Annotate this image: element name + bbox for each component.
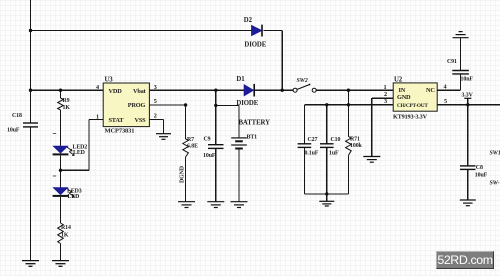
op-amp U3 <box>103 83 149 127</box>
wire bottom rail ground stem <box>326 194 328 201</box>
power port 3.3V <box>464 97 471 99</box>
wire R9 branch top <box>60 90 62 98</box>
wire C9 branch <box>215 90 217 144</box>
ground (U2 GND) <box>363 157 380 163</box>
capacitor C91 <box>452 71 469 74</box>
wire C8 to ground <box>467 170 469 200</box>
wire C10 top <box>326 105 328 144</box>
capacitor C10 <box>320 144 334 148</box>
ground (C27 C10 R71) <box>319 201 334 206</box>
wire C91 top to power <box>460 38 462 70</box>
wire VSS down <box>163 119 165 133</box>
svg-text:SW1: SW1 <box>490 151 500 157</box>
pin mark LED3 <box>53 175 56 177</box>
watermark 52RD.com <box>436 251 494 269</box>
svg-text:SW2: SW2 <box>297 78 308 84</box>
svg-text:3: 3 <box>384 98 387 105</box>
svg-text:3: 3 <box>154 84 157 91</box>
resistor R71 <box>346 136 352 155</box>
ground (C8) <box>460 200 476 206</box>
wire R14 to ground <box>60 244 62 261</box>
ground (BT1) <box>231 202 248 208</box>
wire battery to ground <box>238 149 240 202</box>
svg-text:DIODE: DIODE <box>244 42 266 49</box>
wire battery link horizontal <box>216 104 239 106</box>
svg-text:R71: R71 <box>350 137 360 143</box>
wire C9 to ground <box>215 148 217 201</box>
svg-text:LED: LED <box>68 194 80 200</box>
svg-text:Vbat: Vbat <box>133 88 147 95</box>
svg-text:DGND: DGND <box>180 166 186 183</box>
switch SW2 <box>293 84 316 93</box>
svg-text:C18: C18 <box>12 113 22 119</box>
svg-text:C8: C8 <box>476 165 483 171</box>
ground (U3 VSS) <box>156 134 171 140</box>
svg-text:PROG: PROG <box>128 102 146 109</box>
svg-text:0.1uF: 0.1uF <box>305 151 319 157</box>
svg-text:4: 4 <box>444 84 447 91</box>
resistor R7 <box>183 139 189 157</box>
svg-text:R14: R14 <box>61 225 71 231</box>
svg-text:1: 1 <box>96 113 99 120</box>
svg-text:6.8E: 6.8E <box>187 144 198 150</box>
svg-text:D1: D1 <box>236 76 245 83</box>
power port inverted ground (top right) <box>453 32 469 38</box>
wire top horizontal <box>31 30 252 32</box>
svg-text:BATTERY: BATTERY <box>239 119 271 126</box>
wire C91 bottom <box>460 74 462 90</box>
wire LED3 to R14 <box>60 197 62 223</box>
svg-text:CH/CPT-OUT: CH/CPT-OUT <box>397 103 428 109</box>
svg-text:U3: U3 <box>105 77 114 84</box>
svg-text:5: 5 <box>154 98 157 105</box>
svg-text:SW-: SW- <box>490 180 500 186</box>
capacitor C9 <box>208 145 224 149</box>
svg-text:3.3V: 3.3V <box>462 93 474 99</box>
svg-text:10uF: 10uF <box>475 173 488 179</box>
ground (C9) <box>207 202 224 208</box>
LED LED2 <box>53 146 75 155</box>
svg-text:VSS: VSS <box>135 117 147 124</box>
wire R9 to LED2 <box>60 110 62 146</box>
svg-text:10nF: 10nF <box>461 77 474 83</box>
wire SW2 to U2 <box>316 89 393 91</box>
svg-text:NC: NC <box>426 87 435 94</box>
svg-text:2: 2 <box>384 91 387 98</box>
wire R7 to ground <box>185 157 187 201</box>
capacitor C8 <box>460 166 476 170</box>
wire left vertical top <box>30 0 32 123</box>
svg-text:C9: C9 <box>204 137 211 143</box>
wire D2 branch vertical <box>281 31 283 91</box>
wire STAT to LED node <box>61 169 90 171</box>
svg-text:BT1: BT1 <box>247 134 258 140</box>
svg-text:1: 1 <box>384 84 387 91</box>
wire PROG to R7 <box>185 105 187 139</box>
svg-text:GND: GND <box>397 94 411 101</box>
svg-text:1uF: 1uF <box>329 151 339 157</box>
svg-text:1K: 1K <box>63 105 71 111</box>
svg-text:U2: U2 <box>394 76 403 83</box>
wire node to LED3 <box>60 170 62 188</box>
wire Vbat rail <box>149 89 244 91</box>
svg-text:2: 2 <box>154 112 157 119</box>
ground (R7) <box>178 202 195 208</box>
wire U2 GND down <box>371 98 373 156</box>
wire STAT vertical <box>88 119 90 170</box>
capacitor C27 <box>298 144 312 148</box>
wire left vertical below C18 <box>30 127 32 260</box>
ground (left column) <box>22 261 39 267</box>
svg-text:LED: LED <box>73 150 85 156</box>
wire R71 top <box>347 105 349 137</box>
battery BT1 <box>231 138 247 149</box>
svg-text:IN: IN <box>399 87 406 94</box>
wire STAT stub <box>89 118 103 120</box>
wire C10 bottom <box>326 147 328 194</box>
wire VSS stub <box>149 118 163 120</box>
svg-text:R7: R7 <box>187 137 194 143</box>
wire battery top <box>238 105 240 137</box>
diode D1 <box>244 84 254 97</box>
wire C8 top <box>467 105 469 166</box>
LED LED3 <box>53 188 75 197</box>
svg-text:C10: C10 <box>331 137 341 143</box>
ground (R14) <box>52 261 69 267</box>
wire D1 to SW2 <box>255 89 293 91</box>
svg-text:STAT: STAT <box>109 117 125 124</box>
svg-text:C91: C91 <box>447 59 457 65</box>
svg-text:D2: D2 <box>244 17 253 24</box>
svg-text:10uF: 10uF <box>203 153 216 159</box>
wire top horizontal after D2 <box>264 30 283 32</box>
wire LED2 to node <box>60 155 62 170</box>
svg-text:MCP73831: MCP73831 <box>105 128 135 135</box>
diode D2 <box>252 25 262 37</box>
svg-text:100k: 100k <box>350 143 363 149</box>
wire bottom rail <box>304 193 348 195</box>
resistor R14 <box>58 223 64 244</box>
svg-text:4: 4 <box>96 84 99 91</box>
svg-text:C27: C27 <box>308 137 318 143</box>
wire C27 bottom <box>303 147 305 194</box>
op-amp U2 <box>393 83 437 111</box>
svg-text:R9: R9 <box>63 98 70 104</box>
svg-text:KT9193-3.3V: KT9193-3.3V <box>393 113 428 120</box>
svg-text:DIODE: DIODE <box>236 100 258 107</box>
wire R71 bottom <box>347 155 349 194</box>
pin mark LED2 <box>53 133 56 135</box>
wire node down to out rail <box>347 90 349 105</box>
svg-text:5: 5 <box>444 98 447 105</box>
wire main rail left <box>31 89 104 91</box>
wire out rail <box>304 104 393 106</box>
wire pin4 stub <box>437 89 460 91</box>
svg-text:VDD: VDD <box>109 88 123 95</box>
resistor R9 <box>58 98 64 110</box>
wire PROG stub <box>149 104 185 106</box>
capacitor C18 <box>23 123 38 127</box>
svg-text:1K: 1K <box>61 233 69 239</box>
wire 3.3V tick <box>467 98 469 105</box>
svg-text:10uF: 10uF <box>7 128 20 134</box>
wire pin5 3.3V rail <box>437 104 500 106</box>
wire C27 top <box>303 105 305 144</box>
wire U2 GND stub <box>372 97 393 99</box>
